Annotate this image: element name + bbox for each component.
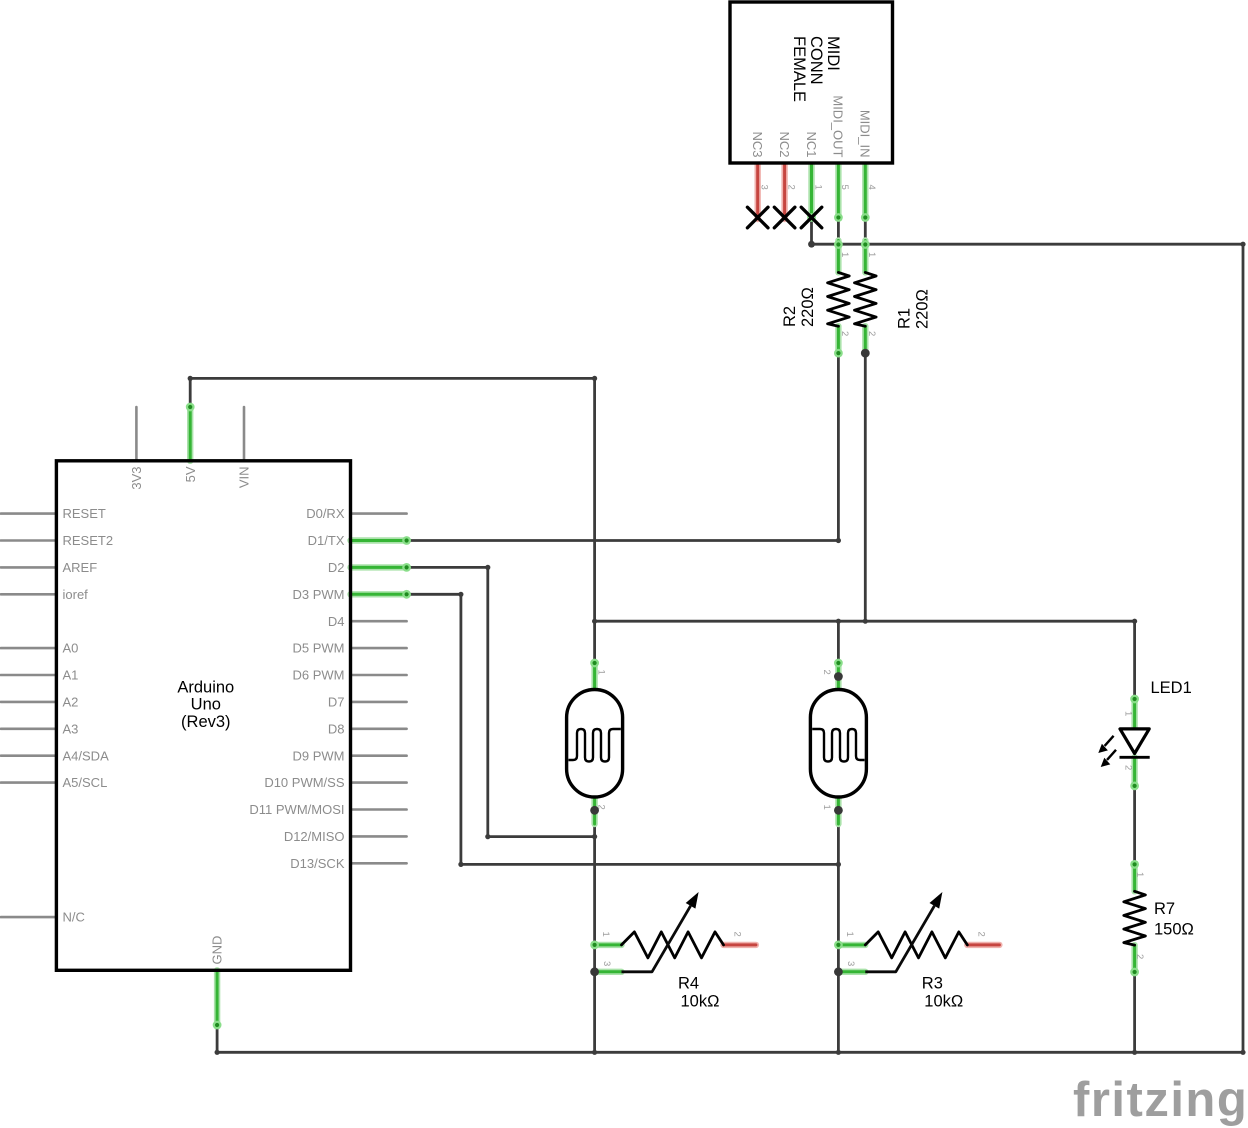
svg-text:LED1: LED1 <box>1151 679 1192 697</box>
svg-text:D12/MISO: D12/MISO <box>284 829 345 844</box>
svg-text:D10 PWM/SS: D10 PWM/SS <box>264 775 345 790</box>
svg-text:2: 2 <box>866 331 877 336</box>
svg-text:10kΩ: 10kΩ <box>681 993 720 1011</box>
svg-text:A0: A0 <box>63 641 79 656</box>
svg-text:ioref: ioref <box>63 587 89 602</box>
svg-text:1: 1 <box>839 252 850 257</box>
svg-text:2: 2 <box>1123 765 1134 770</box>
svg-text:fritzing: fritzing <box>1073 1073 1248 1127</box>
svg-text:D4: D4 <box>328 614 345 629</box>
svg-text:2: 2 <box>975 932 986 937</box>
svg-text:10kΩ: 10kΩ <box>924 993 963 1011</box>
svg-text:R3: R3 <box>922 975 943 993</box>
svg-text:R2: R2 <box>781 306 799 327</box>
svg-text:D11 PWM/MOSI: D11 PWM/MOSI <box>249 802 344 817</box>
svg-text:(Rev3): (Rev3) <box>181 713 231 731</box>
svg-text:D13/SCK: D13/SCK <box>290 856 345 871</box>
svg-text:R7: R7 <box>1154 900 1175 918</box>
svg-text:D6 PWM: D6 PWM <box>293 668 345 683</box>
svg-text:RESET2: RESET2 <box>63 533 114 548</box>
svg-text:GND: GND <box>210 936 225 965</box>
svg-text:5V: 5V <box>183 466 198 482</box>
svg-text:1: 1 <box>595 670 606 675</box>
svg-text:2: 2 <box>821 670 832 675</box>
svg-text:2: 2 <box>732 932 743 937</box>
svg-text:3: 3 <box>845 961 856 966</box>
svg-text:NC1: NC1 <box>804 131 819 157</box>
svg-text:2: 2 <box>785 185 796 190</box>
svg-text:Uno: Uno <box>191 696 221 714</box>
svg-text:1: 1 <box>812 185 823 190</box>
svg-text:3: 3 <box>601 961 612 966</box>
svg-text:1: 1 <box>1134 872 1145 877</box>
svg-text:150Ω: 150Ω <box>1154 920 1194 938</box>
svg-text:A4/SDA: A4/SDA <box>63 748 110 763</box>
svg-text:MIDI: MIDI <box>824 36 842 71</box>
svg-text:D8: D8 <box>328 721 345 736</box>
svg-text:D3 PWM: D3 PWM <box>293 587 345 602</box>
svg-text:1: 1 <box>600 932 611 937</box>
svg-text:A1: A1 <box>63 668 79 683</box>
svg-text:CONN: CONN <box>807 36 825 85</box>
svg-text:NC3: NC3 <box>750 131 765 157</box>
svg-text:FEMALE: FEMALE <box>790 36 808 102</box>
svg-text:D9 PWM: D9 PWM <box>293 748 345 763</box>
svg-text:1: 1 <box>1123 711 1134 716</box>
svg-text:MIDI_IN: MIDI_IN <box>858 110 873 158</box>
svg-text:5: 5 <box>839 185 850 190</box>
svg-text:1: 1 <box>866 252 877 257</box>
svg-text:220Ω: 220Ω <box>914 289 932 329</box>
svg-text:A5/SCL: A5/SCL <box>63 775 108 790</box>
svg-text:A3: A3 <box>63 721 79 736</box>
svg-text:1: 1 <box>844 932 855 937</box>
svg-text:RESET: RESET <box>63 506 106 521</box>
svg-text:A2: A2 <box>63 695 79 710</box>
svg-text:220Ω: 220Ω <box>799 287 817 327</box>
svg-text:D1/TX: D1/TX <box>308 533 345 548</box>
svg-text:D5 PWM: D5 PWM <box>293 641 345 656</box>
svg-text:MIDI_OUT: MIDI_OUT <box>831 95 846 157</box>
svg-text:2: 2 <box>595 805 606 810</box>
svg-text:VIN: VIN <box>237 467 252 489</box>
svg-text:Arduino: Arduino <box>177 678 234 696</box>
svg-text:AREF: AREF <box>63 560 98 575</box>
svg-text:R1: R1 <box>896 308 914 329</box>
svg-text:R4: R4 <box>678 975 699 993</box>
svg-text:3V3: 3V3 <box>129 467 144 490</box>
svg-text:D7: D7 <box>328 695 345 710</box>
svg-text:2: 2 <box>1134 954 1145 959</box>
svg-text:D0/RX: D0/RX <box>306 506 345 521</box>
svg-text:NC2: NC2 <box>777 131 792 157</box>
svg-text:1: 1 <box>821 805 832 810</box>
svg-text:N/C: N/C <box>63 910 85 925</box>
svg-text:3: 3 <box>759 185 770 190</box>
svg-text:4: 4 <box>866 185 877 190</box>
svg-text:2: 2 <box>839 331 850 336</box>
svg-text:D2: D2 <box>328 560 345 575</box>
